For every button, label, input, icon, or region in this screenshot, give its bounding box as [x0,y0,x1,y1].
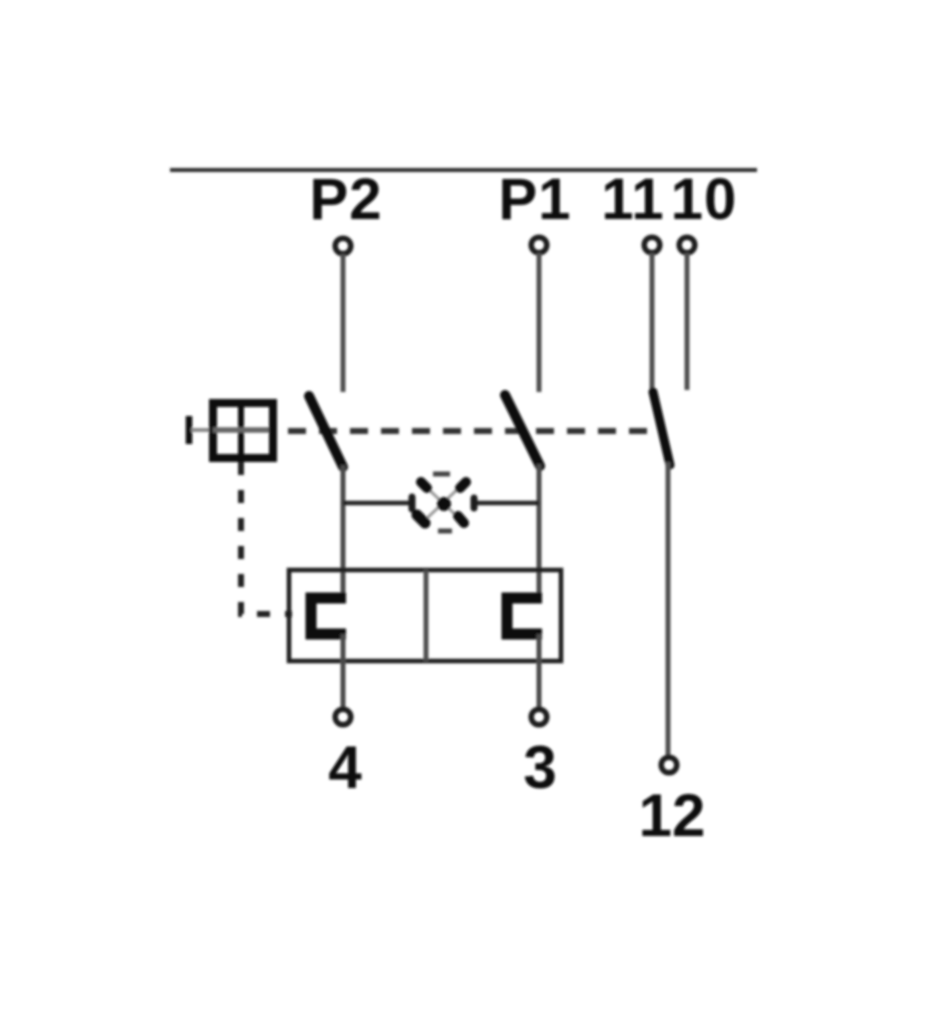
svg-text:10: 10 [671,167,738,232]
switch blade aux contact [653,392,670,465]
terminal 3 [531,709,547,725]
terminal P1 [531,237,547,253]
wire P1 top [537,253,542,392]
push button S1 [189,403,273,458]
svg-text:12: 12 [639,782,706,849]
thermal element F2 [507,598,542,634]
switch blade P1 [505,395,540,466]
terminal 4 [335,709,351,725]
indicator lamp H1 [412,474,474,531]
lamp wire left [343,501,414,506]
terminal 10 [679,237,695,253]
terminal 11 [644,237,660,253]
svg-text:3: 3 [523,734,556,801]
lamp wire right [472,501,539,506]
box divider [424,570,429,661]
wire to terminal 12 [666,462,671,757]
terminal P2 [335,238,351,254]
thermal overload box [289,570,561,661]
svg-text:11: 11 [601,167,664,232]
wire 10 [685,253,690,390]
terminal 12 [661,757,677,773]
linkage dashed horizontal [288,428,649,434]
svg-text:4: 4 [328,734,362,801]
wire P1 mid [537,464,542,598]
wire P1 bottom [537,634,542,709]
wire P2 top [341,254,346,392]
linkage dashed vertical to overload box [241,462,292,614]
svg-text:P1: P1 [499,167,572,232]
wire P2 mid [341,465,346,598]
svg-text:P2: P2 [310,167,383,232]
thermal element F1 [311,598,346,634]
top bus line [170,168,757,172]
switch blade P2 [309,396,343,467]
wire P2 bottom [341,634,346,709]
wire 11 [650,253,655,390]
